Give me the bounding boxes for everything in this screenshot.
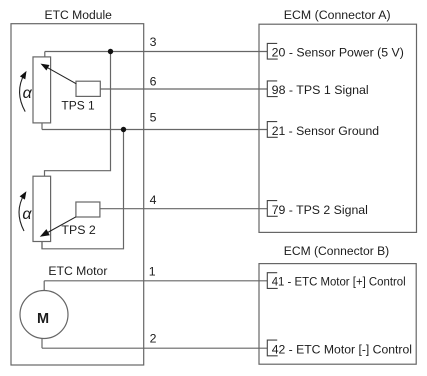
pin 41 terminal bracket: [267, 273, 277, 289]
TPS2 wiper terminal box: [76, 202, 100, 217]
ECM Connector A box: [259, 24, 417, 232]
svg-text:20 - Sensor Power (5 V): 20 - Sensor Power (5 V): [272, 46, 404, 60]
pin 20 terminal bracket: [267, 43, 277, 59]
TPS1 wiper arrow shaft: [46, 67, 76, 84]
wire branch from wire5 junction to TPS2 bottom: [42, 130, 124, 249]
svg-text:ETC Module: ETC Module: [45, 8, 113, 22]
junction node on wire 3: [108, 49, 113, 54]
svg-text:2: 2: [150, 331, 157, 345]
wire 4 (TPS2 wiper to pin 79): [100, 208, 267, 210]
svg-text:M: M: [37, 311, 49, 327]
svg-text:21 - Sensor Ground: 21 - Sensor Ground: [272, 124, 380, 138]
svg-text:41 - ETC Motor [+] Control: 41 - ETC Motor [+] Control: [272, 275, 406, 289]
potentiometer TPS2 body: [33, 176, 51, 241]
wire branch from wire3 junction to TPS2 top: [45, 52, 111, 177]
wire motor top stub: [43, 281, 45, 291]
svg-text:98 - TPS 1 Signal: 98 - TPS 1 Signal: [272, 83, 369, 97]
svg-text:79 - TPS 2 Signal: 79 - TPS 2 Signal: [272, 203, 368, 217]
svg-text:4: 4: [150, 193, 157, 207]
TPS2 rotation arc arrowhead: [20, 191, 27, 199]
pin 79 terminal bracket: [267, 201, 277, 217]
wire TPS2 bottom stub: [41, 242, 43, 249]
svg-text:α: α: [22, 206, 32, 223]
TPS1 rotation arc: [20, 74, 26, 112]
pin 21 terminal bracket: [267, 122, 277, 138]
motor M1 circle: [20, 291, 68, 339]
wire 3 (TPS1 top to pin 20): [45, 51, 267, 53]
TPS1 wiper arrowhead: [41, 64, 50, 71]
wire 2 (motor - to pin 42): [42, 347, 267, 349]
svg-text:42 - ETC Motor [-] Control: 42 - ETC Motor [-] Control: [272, 342, 412, 356]
wire TPS1 bottom stub: [41, 123, 43, 130]
TPS2 rotation arc: [19, 194, 24, 231]
svg-text:ECM (Connector A): ECM (Connector A): [284, 8, 391, 22]
TPS2 wiper arrow shaft: [47, 217, 77, 233]
svg-text:TPS 2: TPS 2: [61, 223, 96, 237]
TPS1 rotation arc arrowhead: [20, 71, 27, 80]
TPS2 wiper arrowhead: [40, 229, 50, 237]
TPS1 wiper terminal box: [76, 81, 100, 96]
wire motor bottom stub: [41, 338, 43, 348]
wire 6 (TPS1 wiper to pin 98): [100, 88, 267, 90]
svg-text:ETC Motor: ETC Motor: [48, 264, 107, 278]
junction node on wire 5: [121, 127, 126, 132]
svg-text:ECM (Connector B): ECM (Connector B): [284, 244, 389, 258]
wire 1 (motor + to pin 41): [44, 280, 267, 282]
svg-text:1: 1: [149, 265, 156, 279]
svg-text:3: 3: [150, 35, 157, 49]
wire TPS1 top stub: [44, 52, 46, 57]
svg-text:5: 5: [150, 110, 157, 124]
svg-text:6: 6: [150, 75, 157, 89]
svg-text:α: α: [23, 85, 33, 102]
wire 5 (TPS1 bottom to pin 21): [42, 129, 267, 131]
ECM Connector B box: [259, 264, 416, 365]
svg-text:TPS 1: TPS 1: [61, 98, 94, 112]
ETC Module enclosure box: [11, 24, 144, 365]
potentiometer TPS1 body: [33, 57, 51, 123]
pin 98 terminal bracket: [267, 81, 277, 97]
pin 42 terminal bracket: [267, 340, 277, 356]
